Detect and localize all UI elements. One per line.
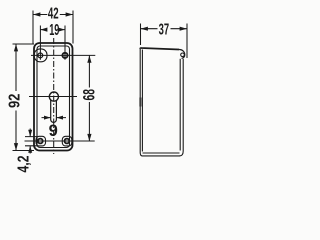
- keyhole horizontal centerline: [29, 96, 77, 98]
- dim 9 left arrowhead: [44, 116, 51, 120]
- dim 19 left arrowhead: [40, 28, 47, 32]
- vertical dash-dot centerline: [53, 38, 55, 154]
- dim 92 line: [15, 44, 17, 151]
- dim 37 right arrowhead: [180, 27, 187, 31]
- dim 37 extension lines: [141, 24, 188, 59]
- dim 4,2 arrow shafts: [29, 129, 31, 154]
- dim 42 line: [33, 14, 73, 16]
- svg-text:92: 92: [7, 94, 24, 109]
- svg-text:19: 19: [49, 22, 59, 39]
- dim 9 arrow shafts: [42, 117, 67, 119]
- side view right edge inner line: [179, 59, 181, 151]
- pocket around top-left hole: [34, 49, 47, 62]
- side view bottom outer line with left corner: [140, 153, 180, 156]
- svg-text:4,2: 4,2: [15, 156, 32, 173]
- pocket around bottom-left hole: [36, 136, 46, 146]
- side view right edge outer line: [182, 59, 184, 151]
- side view left edge inner line: [141, 50, 143, 152]
- top-right mounting hole: [62, 53, 67, 58]
- dim 19 line: [40, 29, 65, 31]
- side view keyhole slot edge mark: [139, 98, 141, 107]
- dim 37 line: [141, 28, 188, 30]
- svg-text:9: 9: [49, 122, 58, 140]
- keyhole slot: [51, 100, 57, 122]
- dim 9 right arrowhead: [56, 116, 63, 120]
- svg-text:68: 68: [81, 89, 99, 101]
- bottom-left mounting hole: [38, 139, 43, 144]
- front view plate inner contour: [37, 46, 70, 148]
- svg-text:42: 42: [48, 6, 59, 23]
- top-left mounting hole: [38, 53, 43, 58]
- bottom holes horizontal centerline / 68 bottom extension: [25, 140, 95, 142]
- side view bottom inner line: [143, 152, 180, 154]
- side view curl eye: [181, 53, 185, 57]
- dim 42 extension lines: [33, 11, 73, 44]
- dim 68 line: [88, 55, 90, 141]
- dim 19 extension lines through top holes: [40, 26, 65, 60]
- dim 37 left arrowhead: [141, 27, 148, 31]
- dim 68 top arrowhead: [87, 55, 91, 62]
- side view top edge: [140, 48, 179, 50]
- dim 92 extension lines: [13, 44, 35, 151]
- dim 42 left arrowhead: [33, 12, 40, 16]
- bottom-right mounting hole: [65, 139, 70, 144]
- side view left edge outer line: [139, 49, 141, 153]
- keyhole circle: [49, 92, 58, 101]
- top holes horizontal centerline / 68 top extension: [31, 54, 95, 56]
- svg-text:37: 37: [159, 21, 170, 38]
- dim 4,2 lower arrowhead: [28, 146, 32, 153]
- dim 42 right arrowhead: [66, 12, 73, 16]
- side view rolled lip curl: [179, 49, 185, 58]
- dim 19 right arrowhead: [58, 28, 65, 32]
- side view bottom right corner: [180, 151, 184, 156]
- pocket around bottom-right hole: [62, 136, 72, 146]
- dim 92 bottom arrowhead: [14, 143, 18, 150]
- dim 4,2 upper arrowhead: [28, 130, 32, 137]
- front view plate outer outline: [34, 43, 73, 151]
- dim 4,2 extension lines: [25, 137, 37, 146]
- dim 92 top arrowhead: [14, 44, 18, 51]
- dim 68 bottom arrowhead: [87, 134, 91, 141]
